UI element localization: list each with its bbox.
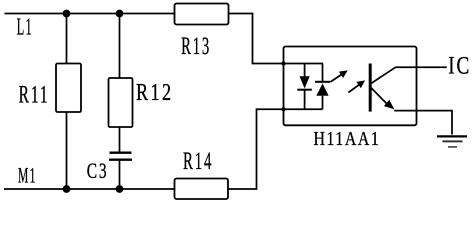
junction dot: M1 rail / C3 — [116, 185, 124, 193]
LED D1 (down-pointing) — [297, 64, 312, 110]
resistor R14 — [175, 179, 229, 200]
wire: emitter to ground — [394, 111, 452, 135]
svg-text:L1: L1 — [17, 14, 33, 40]
wire: R11 bottom lead — [66, 112, 68, 189]
wire: top rail from L1 — [5, 13, 175, 15]
optocoupler U1 body — [284, 47, 417, 126]
svg-text:H11AA1: H11AA1 — [314, 128, 381, 150]
light emission arrow 2 — [348, 80, 365, 92]
resistor R11 — [56, 64, 81, 113]
wire: R12 to C3 — [119, 127, 121, 152]
wire: R11 top lead — [66, 14, 68, 64]
svg-text:R13: R13 — [181, 31, 211, 60]
svg-text:IC: IC — [448, 52, 471, 79]
resistor R13 — [175, 4, 229, 25]
wire: R14 to optocoupler cathode rail — [228, 109, 323, 189]
svg-text:R11: R11 — [19, 82, 50, 109]
svg-text:M1: M1 — [18, 163, 36, 188]
light emission arrow 1 — [330, 70, 347, 82]
wire: R13 to optocoupler anode rail — [229, 14, 324, 64]
ground — [437, 136, 467, 147]
junction dot: M1 rail / R11 — [63, 185, 71, 193]
wire: bottom rail from M1 — [4, 188, 175, 190]
wire: R12 top lead — [119, 14, 121, 79]
wire: collector to IC — [396, 66, 447, 68]
svg-text:C3: C3 — [87, 158, 109, 183]
LED D2 (up-pointing) — [315, 64, 330, 110]
junction dot: L1 rail / R11 — [63, 10, 71, 18]
svg-text:R14: R14 — [183, 146, 213, 175]
junction dot: cathode wire at U1 left edge — [281, 107, 285, 111]
svg-text:R12: R12 — [136, 80, 174, 106]
phototransistor Q1 — [370, 64, 395, 112]
junction dot: anode wire at U1 left edge — [281, 61, 285, 65]
junction dot: L1 rail / R12 — [116, 10, 124, 18]
capacitor C3 — [109, 153, 132, 160]
resistor R12 — [109, 78, 133, 127]
wire: C3 bottom lead — [119, 160, 121, 189]
